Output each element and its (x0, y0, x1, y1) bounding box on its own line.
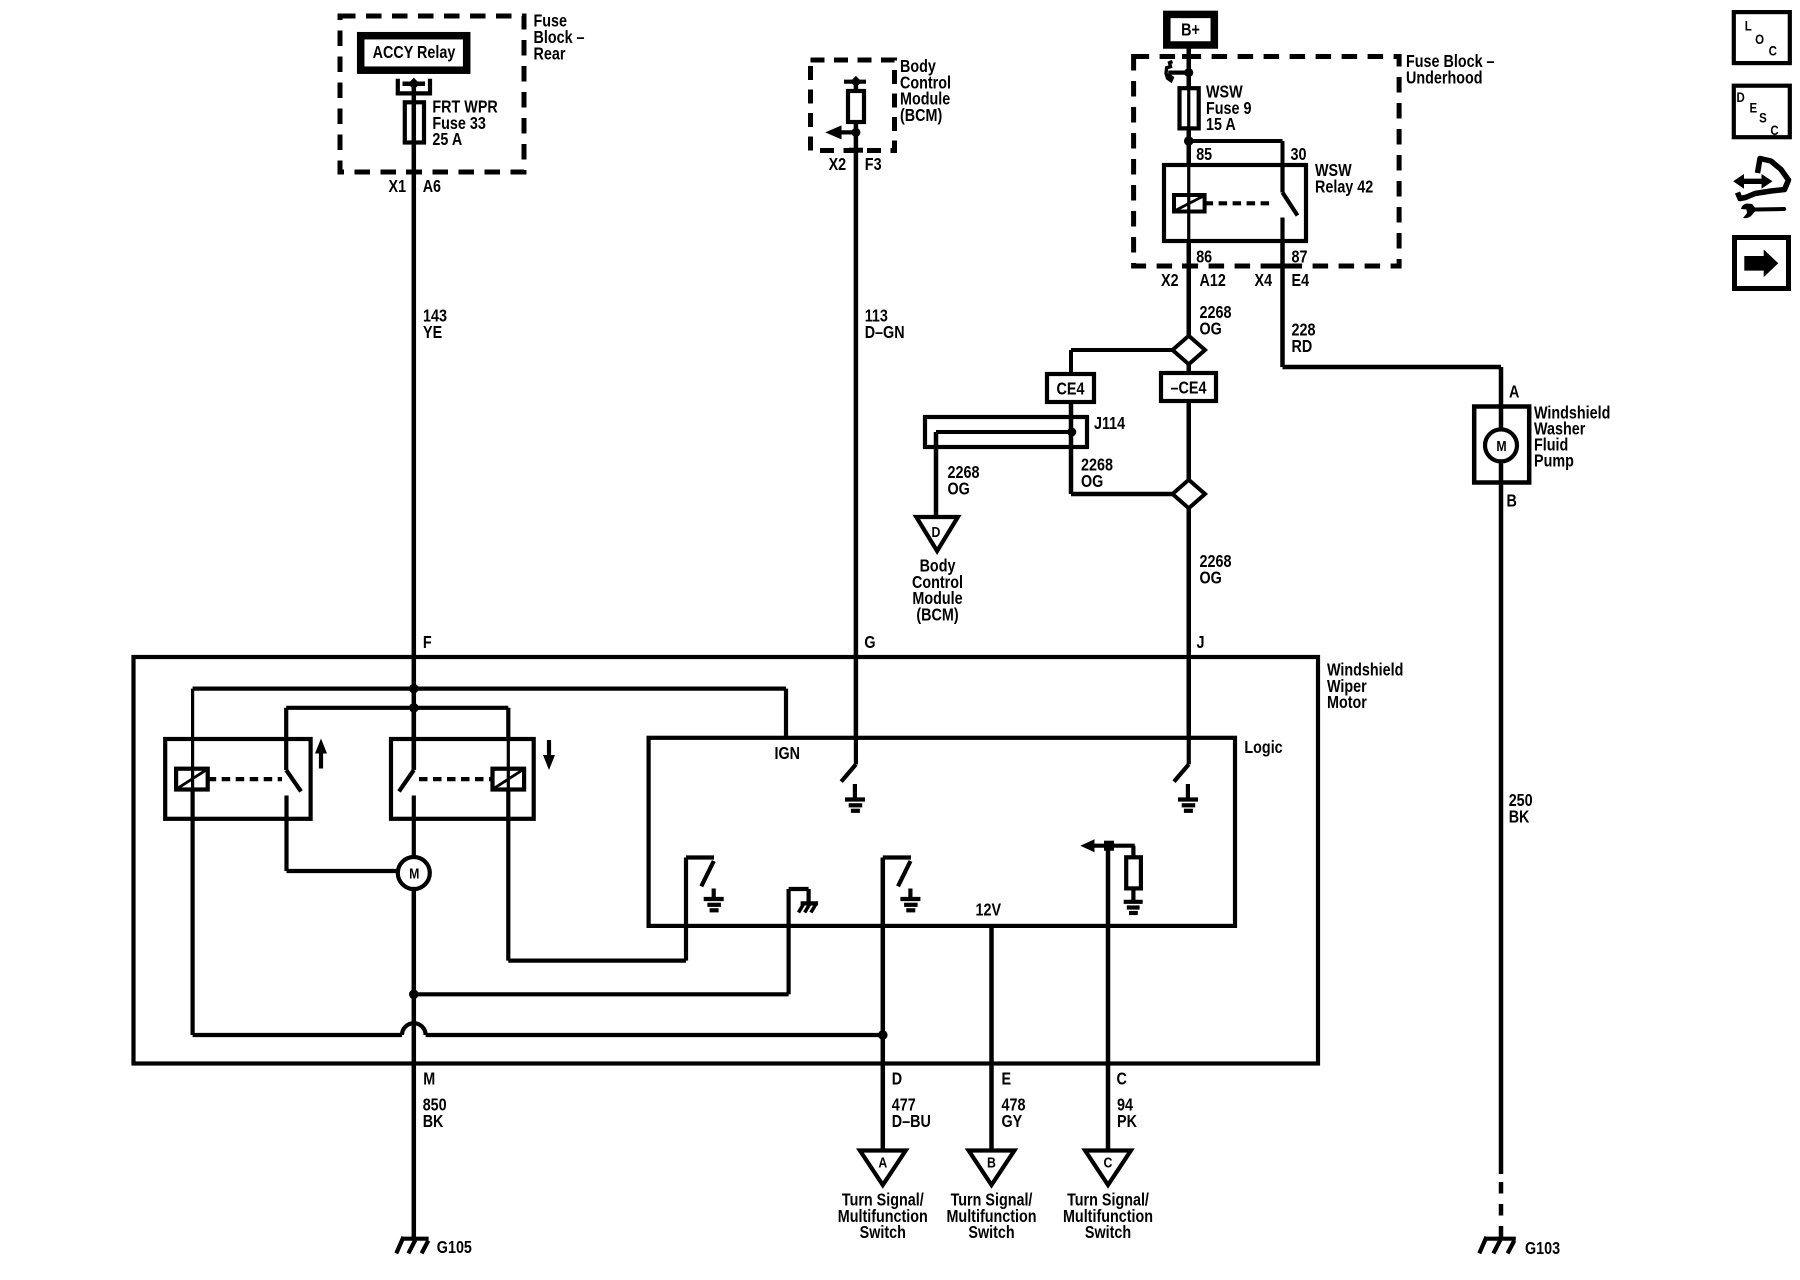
connector -CE4 (1161, 373, 1216, 401)
svg-text:F: F (423, 634, 432, 653)
washer pump motor M (1485, 407, 1517, 484)
svg-text:A6: A6 (423, 178, 441, 197)
wire relay 87, 228 RD to washer pump A (1283, 241, 1502, 407)
ground symbol D switch (900, 889, 920, 911)
svg-text:YE: YE (423, 324, 442, 343)
wire motor to ground bus (412, 889, 417, 1064)
wire label 250 BK (1509, 792, 1533, 827)
svg-text:F3: F3 (865, 156, 882, 175)
svg-text:ACCY Relay: ACCY Relay (373, 44, 456, 63)
fuse holder clip (398, 78, 430, 94)
svg-text:87: 87 (1292, 248, 1308, 267)
relay coil (1174, 165, 1205, 241)
svg-text:IGN: IGN (775, 745, 801, 764)
ground symbol J switch (1178, 784, 1198, 811)
wire logic to terminal C (1106, 846, 1111, 1150)
svg-text:86: 86 (1196, 248, 1212, 267)
wire fuse F33 to motor terminal F (412, 86, 417, 770)
svg-text:Pump: Pump (1534, 452, 1574, 471)
svg-text:GY: GY (1002, 1113, 1023, 1132)
svg-text:X2: X2 (829, 156, 847, 175)
windshield wiper motor box (134, 657, 1319, 1064)
connector labels X1 A6 (389, 178, 442, 197)
wire logic to terminal D (881, 858, 886, 1151)
svg-text:M: M (409, 865, 419, 881)
svg-text:B: B (1507, 492, 1517, 511)
wire B+ to fuse 9 (1187, 45, 1192, 88)
wire label 94 PK (1117, 1096, 1137, 1131)
wire label 2268 OG (1200, 553, 1232, 588)
node junction motor ground (409, 990, 419, 1000)
ground symbol resistor (1124, 902, 1143, 913)
wire motor junction to logic chassis ground (414, 889, 789, 994)
svg-text:X2: X2 (1161, 272, 1179, 291)
down arrow direction (543, 740, 555, 770)
svg-text:M: M (423, 1070, 435, 1089)
svg-text:25 A: 25 A (432, 131, 462, 150)
up arrow park direction (315, 739, 327, 769)
fuse block rear label (534, 12, 585, 63)
ACCY Relay box (361, 36, 467, 70)
svg-text:O: O (1755, 31, 1764, 47)
svg-text:15 A: 15 A (1206, 116, 1236, 135)
ground G105 (396, 1237, 428, 1254)
svg-text:Underhood: Underhood (1406, 69, 1483, 88)
svg-text:85: 85 (1196, 146, 1212, 165)
wire label 850 BK (423, 1096, 447, 1131)
logic switch D output to ground (883, 858, 911, 887)
svg-text:BK: BK (423, 1113, 444, 1132)
windshield washer fluid pump box (1474, 407, 1529, 483)
battery feed hook symbol (1166, 62, 1193, 81)
WSW Relay 42 box (1164, 165, 1306, 241)
svg-text:BK: BK (1509, 808, 1530, 827)
svg-text:CE4: CE4 (1057, 380, 1085, 399)
connector labels X2 A12 X4 E4 (1161, 272, 1309, 291)
relay actuate dashed link (1205, 201, 1272, 205)
wire label 143 YE (423, 307, 447, 342)
wiper relay 2 box (391, 739, 534, 819)
wire J114 to BCM triangle D (934, 432, 939, 518)
svg-text:C: C (1769, 42, 1777, 58)
wire label 113 D-GN (865, 307, 905, 342)
node junction relay feed (409, 703, 419, 713)
connector labels X2 F3 (829, 156, 882, 175)
wire label 2268 OG (948, 464, 980, 499)
wiper motor label (1327, 661, 1403, 712)
logic switch J to ground (1174, 738, 1189, 782)
B+ power symbol (1167, 14, 1215, 45)
fuse F9 value label (1206, 83, 1252, 134)
svg-text:B+: B+ (1181, 21, 1200, 40)
svg-text:M: M (1496, 438, 1506, 454)
harness repair icon (1733, 159, 1788, 219)
svg-text:D: D (1737, 89, 1745, 105)
fuse block underhood dashed box (1134, 57, 1400, 267)
wire 250 BK pump to G103 (1499, 484, 1504, 1238)
fuse F33 value label (432, 98, 498, 149)
BCM label (900, 58, 951, 125)
chassis ground staple (789, 889, 809, 902)
svg-text:L: L (1745, 17, 1752, 33)
relay pin labels 86 87 (1196, 248, 1307, 267)
WSW Relay 42 label (1315, 162, 1373, 197)
wire 12V to terminal E (989, 926, 994, 1150)
svg-text:Motor: Motor (1327, 694, 1367, 713)
svg-text:D: D (932, 524, 941, 540)
BCM output arrow (825, 125, 860, 139)
logic module box (649, 738, 1235, 926)
svg-text:OG: OG (1081, 473, 1103, 492)
svg-text:J114: J114 (1094, 415, 1125, 434)
wire label 478 GY (1002, 1096, 1026, 1131)
relay 2 actuate dashed link (419, 777, 493, 781)
off-page triangle C (1085, 1151, 1131, 1186)
svg-text:J: J (1197, 634, 1205, 653)
svg-text:–CE4: –CE4 (1171, 379, 1207, 398)
svg-text:Relay 42: Relay 42 (1315, 178, 1373, 197)
node junction F feed (409, 684, 419, 694)
svg-text:12V: 12V (976, 901, 1002, 920)
destination label turn signal switch B (946, 1191, 1036, 1242)
off-page triangle B (969, 1151, 1015, 1186)
svg-text:PK: PK (1117, 1113, 1137, 1132)
logic arrow output C (1080, 839, 1134, 852)
relay 1 switch contact (286, 739, 301, 871)
svg-text:C: C (1117, 1070, 1128, 1089)
wire label 2268 OG (1200, 304, 1232, 339)
svg-text:30: 30 (1291, 146, 1307, 165)
destination label turn signal switch A (838, 1191, 928, 1242)
ground symbol park switch (704, 889, 724, 911)
wire label 2268 OG (1081, 456, 1113, 491)
svg-text:E: E (1002, 1070, 1012, 1089)
off-page triangle D to BCM (916, 517, 958, 551)
wiper relay 1 box (165, 739, 310, 819)
relay 1 coil (176, 769, 208, 790)
svg-text:X4: X4 (1255, 272, 1273, 291)
svg-text:OG: OG (1200, 569, 1222, 588)
logic switch G to ground (841, 738, 856, 782)
relay 2 switch contact (399, 708, 414, 858)
svg-text:Logic: Logic (1244, 739, 1282, 758)
ground G103 (1479, 1237, 1516, 1254)
svg-text:Switch: Switch (1085, 1224, 1131, 1243)
wire label 477 D-BU (892, 1096, 931, 1131)
wire relay 2 coil to logic switch (508, 790, 686, 961)
wiper motor armature M (398, 857, 430, 889)
svg-text:G105: G105 (437, 1239, 472, 1258)
wire relay 1 coil to logic bus (193, 790, 883, 1036)
wire F bus to IGN feed (193, 689, 786, 738)
svg-text:Switch: Switch (860, 1224, 906, 1243)
splice diamond S2 (1173, 480, 1206, 508)
svg-text:OG: OG (1200, 320, 1222, 339)
relay 1 coil branch wire (191, 689, 194, 791)
destination label turn signal switch C (1063, 1191, 1153, 1242)
wire CE4 through J114 to splice S2 (1071, 402, 1173, 494)
svg-text:A12: A12 (1200, 272, 1226, 291)
chassis ground symbol logic (799, 903, 819, 912)
svg-text:G103: G103 (1525, 1240, 1560, 1259)
connector CE4 (1047, 374, 1094, 402)
off-page triangle A (860, 1151, 906, 1186)
svg-text:RD: RD (1292, 338, 1313, 357)
svg-text:S: S (1759, 110, 1767, 126)
svg-text:OG: OG (948, 480, 970, 499)
ground symbol G switch (845, 784, 865, 811)
svg-text:(BCM): (BCM) (900, 107, 942, 126)
relay switch contact (1283, 165, 1298, 241)
wire relay 1 switch to motor (287, 869, 398, 873)
wire motor M terminal to G105 (412, 1064, 417, 1241)
next page arrow icon (1735, 238, 1789, 289)
relay 2 coil (493, 741, 525, 791)
logic switch park to ground (686, 858, 714, 887)
svg-text:E4: E4 (1292, 272, 1310, 291)
node junction on wire D (878, 1030, 888, 1040)
fuse F9 WSW 15A (1180, 88, 1199, 128)
svg-text:D: D (892, 1070, 902, 1089)
wire relay 86 to splice S1, 2268 OG (1187, 241, 1192, 337)
wire BCM fuse to terminal G (854, 84, 859, 740)
DESC icon box (1734, 86, 1790, 139)
fuse block rear dashed box (340, 16, 524, 172)
svg-text:B: B (987, 1154, 996, 1170)
body control module dashed box (811, 60, 895, 151)
svg-text:(BCM): (BCM) (916, 606, 958, 625)
splice diamond S1 (1173, 336, 1206, 364)
washer pump label (1534, 404, 1610, 471)
wire label 228 RD (1292, 321, 1316, 356)
BCM destination label (912, 557, 963, 624)
in-line harness connector J114 (925, 417, 1087, 447)
pull-up resistor (1126, 846, 1141, 900)
svg-text:G: G (864, 634, 875, 653)
svg-text:Switch: Switch (968, 1224, 1014, 1243)
relay 1 actuate dashed link (208, 777, 282, 781)
svg-text:X1: X1 (389, 178, 407, 197)
BCM internal fuse (844, 76, 866, 122)
svg-text:C: C (1104, 1154, 1113, 1170)
svg-text:D–GN: D–GN (865, 324, 905, 343)
wire splice S1 to connector CE4 (1071, 350, 1173, 374)
fuse F33 FRT WPR 25A (405, 102, 424, 142)
fuse block underhood label (1406, 53, 1495, 88)
wire junction to relay pin 30 (1189, 141, 1283, 167)
node junction fuse9 out (1184, 128, 1194, 165)
wire splice S2 to terminal J, 2268 OG (1187, 508, 1192, 740)
svg-text:A: A (1509, 383, 1520, 402)
svg-text:Rear: Rear (534, 45, 566, 64)
svg-text:E: E (1750, 99, 1758, 115)
wire -CE4 to splice S2 (1187, 364, 1192, 373)
relay pin labels 85 30 (1196, 146, 1306, 165)
svg-text:C: C (1770, 122, 1778, 138)
svg-text:A: A (878, 1154, 887, 1170)
wire relay tops bus (286, 708, 508, 741)
LOC icon box (1734, 12, 1790, 63)
svg-text:D–BU: D–BU (892, 1113, 931, 1132)
